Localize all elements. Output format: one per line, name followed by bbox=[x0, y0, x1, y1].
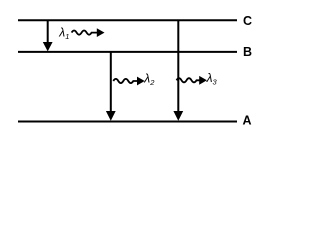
transition arrow C to B bbox=[47, 20, 49, 43]
svg-text:B: B bbox=[243, 45, 252, 59]
photon wavy arrow 1 bbox=[72, 30, 99, 34]
energy level B line bbox=[18, 51, 237, 53]
photon wavy arrow 2 bbox=[113, 79, 139, 83]
svg-text:λ2: λ2 bbox=[143, 72, 155, 88]
svg-text:C: C bbox=[243, 14, 252, 28]
photon wavy arrow 3 bbox=[177, 78, 202, 82]
energy level C line bbox=[18, 19, 237, 21]
svg-text:A: A bbox=[243, 114, 252, 128]
energy level A line bbox=[18, 121, 237, 123]
svg-text:λ1: λ1 bbox=[58, 26, 69, 42]
transition arrow C to A bbox=[177, 20, 179, 113]
transition arrow B to A bbox=[110, 52, 112, 113]
svg-text:λ3: λ3 bbox=[206, 71, 218, 87]
